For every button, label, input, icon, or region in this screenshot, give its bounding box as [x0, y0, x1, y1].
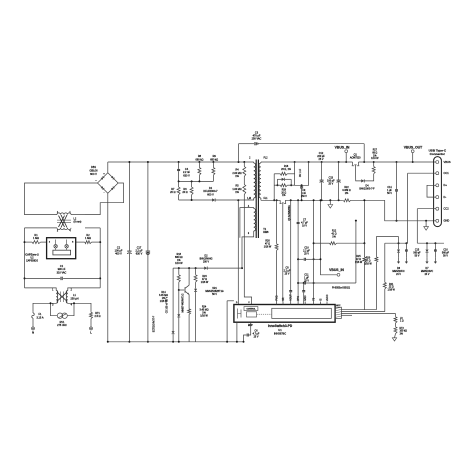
- svg-text:100 kΩ: 100 kΩ: [400, 331, 408, 333]
- svg-text:4.7 µF: 4.7 µF: [253, 334, 260, 336]
- svg-text:VBUS: VBUS: [444, 160, 451, 164]
- svg-text:R20: R20: [366, 257, 371, 259]
- svg-text:InnoSwitch3-PD: InnoSwitch3-PD: [268, 324, 293, 328]
- svg-text:20 Ω: 20 Ω: [182, 191, 187, 194]
- svg-text:1%: 1%: [373, 155, 376, 157]
- svg-text:SR: SR: [283, 297, 285, 301]
- svg-text:R21: R21: [389, 284, 394, 286]
- svg-text:CONTROL: CONTROL: [246, 309, 256, 311]
- svg-text:R24: R24: [202, 307, 207, 309]
- svg-text:24 V: 24 V: [396, 274, 401, 276]
- svg-text:1/16 W: 1/16 W: [371, 158, 379, 160]
- svg-text:1/16 W: 1/16 W: [201, 282, 209, 284]
- svg-text:4.7 µF: 4.7 µF: [301, 222, 308, 224]
- svg-text:C10: C10: [304, 248, 309, 250]
- svg-text:C9 1 nF: C9 1 nF: [300, 168, 302, 177]
- svg-text:1%: 1%: [202, 313, 205, 315]
- svg-text:CAPZero-2: CAPZero-2: [25, 252, 39, 256]
- svg-text:2.5 Ω: 2.5 Ω: [95, 315, 101, 318]
- svg-text:250 V: 250 V: [301, 196, 307, 198]
- svg-text:U1: U1: [278, 328, 282, 332]
- svg-text:R25: R25: [356, 256, 361, 258]
- svg-text:RM8: RM8: [263, 231, 269, 234]
- svg-text:1/16 W: 1/16 W: [175, 263, 183, 265]
- svg-text:0.089 Ω: 0.089 Ω: [342, 190, 351, 192]
- svg-text:250 µH: 250 µH: [70, 297, 78, 300]
- svg-text:R18: R18: [284, 166, 289, 168]
- svg-text:400 V: 400 V: [115, 253, 122, 256]
- svg-text:N: N: [32, 331, 34, 335]
- svg-text:MMBT4403WT1G: MMBT4403WT1G: [183, 293, 185, 312]
- svg-text:1 MΩ: 1 MΩ: [85, 237, 91, 240]
- svg-text:D-: D-: [444, 195, 447, 199]
- svg-text:1 Ω: 1 Ω: [400, 321, 404, 323]
- svg-text:2.2 µF: 2.2 µF: [303, 251, 310, 253]
- svg-text:41 Ω: 41 Ω: [331, 234, 336, 236]
- svg-text:200 V: 200 V: [203, 261, 210, 263]
- svg-text:uVCC: uVCC: [327, 294, 329, 301]
- svg-text:VBUS_OUT: VBUS_OUT: [404, 145, 423, 149]
- svg-text:1%: 1%: [282, 195, 285, 197]
- svg-text:BAV21WS-7-F: BAV21WS-7-F: [359, 188, 375, 191]
- svg-text:1%: 1%: [177, 260, 180, 262]
- svg-text:1/16 W: 1/16 W: [364, 263, 372, 265]
- svg-text:1/16 W: 1/16 W: [264, 246, 272, 248]
- svg-text:680 kΩ: 680 kΩ: [210, 158, 218, 161]
- svg-text:C5 100 nF 25 V: C5 100 nF 25 V: [167, 296, 169, 313]
- svg-text:600 V: 600 V: [207, 193, 214, 196]
- svg-text:R22: R22: [344, 187, 349, 189]
- svg-text:1%: 1%: [400, 334, 403, 336]
- svg-text:(8 mm): (8 mm): [74, 221, 82, 224]
- svg-text:C11: C11: [304, 274, 309, 276]
- svg-text:MMSZ5262BT1G: MMSZ5262BT1G: [205, 291, 223, 293]
- svg-text:47 Ω: 47 Ω: [202, 279, 207, 281]
- svg-text:1/16 W: 1/16 W: [160, 301, 168, 303]
- svg-text:26 Ω, 1%: 26 Ω, 1%: [281, 169, 291, 171]
- svg-text:MM3Z24VC: MM3Z24VC: [392, 271, 405, 273]
- svg-text:1%: 1%: [162, 298, 165, 300]
- svg-text:1 MΩ: 1 MΩ: [33, 237, 39, 240]
- svg-text:20 Ω: 20 Ω: [170, 191, 175, 194]
- svg-text:1/16 W: 1/16 W: [388, 290, 396, 292]
- svg-text:25 V: 25 V: [319, 158, 324, 161]
- svg-text:47 Ω: 47 Ω: [366, 260, 371, 262]
- svg-text:1%: 1%: [332, 237, 335, 239]
- svg-text:AON7520: AON7520: [350, 157, 361, 160]
- svg-text:275 VAC: 275 VAC: [57, 324, 67, 327]
- svg-text:R23: R23: [202, 276, 207, 278]
- svg-text:25 V: 25 V: [254, 337, 259, 339]
- svg-text:2.2 µF: 2.2 µF: [284, 270, 291, 272]
- svg-text:1 µF: 1 µF: [304, 277, 309, 279]
- svg-text:47 Ω: 47 Ω: [265, 243, 270, 245]
- svg-text:25 V: 25 V: [285, 273, 290, 275]
- svg-text:R17: R17: [373, 149, 378, 151]
- svg-text:R12: R12: [332, 231, 337, 233]
- svg-text:D+: D+: [444, 183, 448, 187]
- svg-text:1 µF: 1 µF: [387, 190, 392, 192]
- svg-text:25 V: 25 V: [304, 254, 309, 256]
- svg-text:3.45 MΩ: 3.45 MΩ: [159, 295, 168, 297]
- svg-text:22 Ω: 22 Ω: [356, 259, 361, 261]
- svg-text:R13: R13: [177, 254, 182, 256]
- svg-text:50 V: 50 V: [415, 255, 420, 257]
- svg-text:PI-8353a-033021: PI-8353a-033021: [332, 287, 351, 289]
- svg-text:560 pF: 560 pF: [413, 252, 421, 254]
- svg-text:Connector: Connector: [430, 152, 446, 156]
- svg-text:3.15 A: 3.15 A: [36, 316, 43, 319]
- svg-text:VBUS_IN: VBUS_IN: [335, 145, 350, 149]
- svg-text:C16: C16: [443, 249, 448, 251]
- svg-text:C15: C15: [415, 249, 420, 251]
- svg-text:630 V: 630 V: [136, 253, 143, 256]
- svg-text:56 V: 56 V: [212, 294, 217, 296]
- svg-text:INN3879C: INN3879C: [274, 331, 286, 335]
- svg-text:1%: 1%: [345, 193, 348, 195]
- svg-text:1/16 W: 1/16 W: [355, 262, 363, 264]
- svg-text:50 V: 50 V: [443, 255, 448, 257]
- svg-text:CAP300DG: CAP300DG: [26, 259, 38, 262]
- svg-text:GND: GND: [444, 219, 450, 223]
- svg-text:GND: GND: [305, 295, 307, 301]
- svg-text:1 nF: 1 nF: [302, 193, 307, 195]
- svg-text:MM3Z24VC: MM3Z24VC: [421, 271, 434, 273]
- svg-text:RT2: RT2: [400, 328, 405, 330]
- svg-text:24 V: 24 V: [425, 274, 430, 276]
- svg-text:-: -: [104, 192, 105, 195]
- svg-text:25 V: 25 V: [304, 280, 309, 282]
- svg-text:CC1: CC1: [444, 171, 450, 175]
- svg-text:BAV20WHG: BAV20WHG: [200, 257, 213, 260]
- svg-text:560 pF: 560 pF: [442, 252, 450, 254]
- svg-text:1/16 W: 1/16 W: [200, 316, 208, 318]
- svg-text:50 V: 50 V: [387, 193, 392, 195]
- svg-text:20 Ω: 20 Ω: [281, 192, 286, 194]
- svg-text:630 V: 630 V: [183, 174, 190, 177]
- svg-text:C14: C14: [387, 187, 392, 189]
- svg-text:VBUS_IN: VBUS_IN: [329, 268, 344, 272]
- svg-text:1,M: 1,M: [247, 198, 251, 200]
- svg-text:680 kΩ: 680 kΩ: [195, 158, 203, 161]
- svg-text:22 Ω: 22 Ω: [389, 287, 394, 289]
- svg-text:BZT52C4V3T-F: BZT52C4V3T-F: [154, 315, 156, 332]
- svg-text:680 kΩ: 680 kΩ: [175, 257, 183, 259]
- svg-text:310 VAC: 310 VAC: [57, 271, 67, 274]
- svg-text:68 Ω: 68 Ω: [372, 152, 377, 154]
- svg-text:R26: R26: [265, 240, 270, 242]
- svg-text:600 V: 600 V: [90, 172, 97, 176]
- svg-text:VR1: VR1: [212, 288, 217, 290]
- svg-text:CC2: CC2: [444, 207, 450, 211]
- svg-text:R14: R14: [161, 292, 166, 294]
- svg-text:10 V: 10 V: [302, 225, 307, 227]
- svg-text:ADC: ADC: [336, 304, 341, 307]
- svg-text:250 VAC: 250 VAC: [252, 138, 262, 141]
- svg-text:3.45 MΩ: 3.45 MΩ: [200, 310, 209, 312]
- svg-text:25 V: 25 V: [328, 182, 333, 185]
